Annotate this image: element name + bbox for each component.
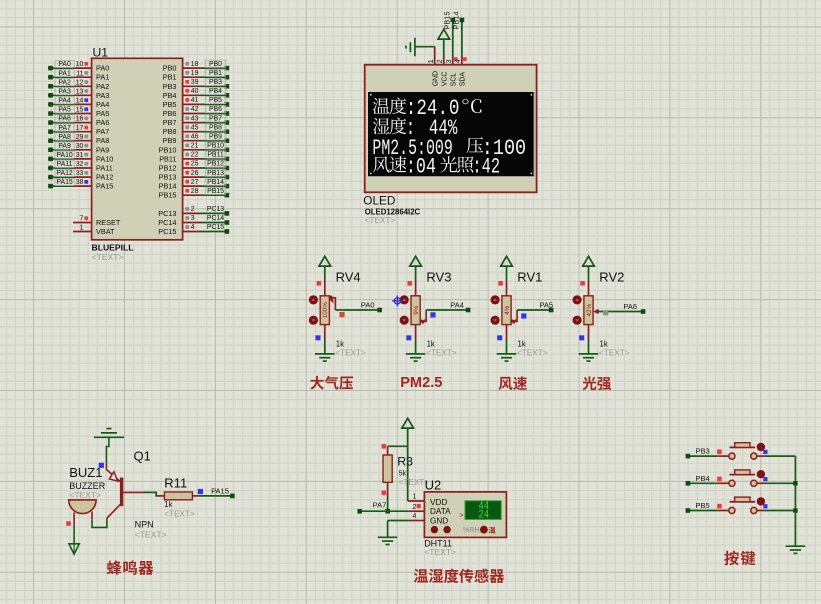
RV2 value 1k xyxy=(599,340,630,358)
U1 left pin 30 PA9 with wire and net label xyxy=(48,142,109,154)
svg-text:PB4: PB4 xyxy=(696,474,710,483)
button actuator circle for PB5 xyxy=(757,497,765,505)
svg-text:PB1: PB1 xyxy=(209,70,222,77)
svg-text:PB3: PB3 xyxy=(163,82,177,91)
svg-text:41: 41 xyxy=(191,97,199,104)
U1 right pin 41 PB5 with wire and net label xyxy=(163,97,229,109)
R3 labels xyxy=(397,455,429,488)
svg-text:<TEXT>: <TEXT> xyxy=(69,490,101,500)
push button for PB5 xyxy=(729,497,757,513)
RV2 state square on wiper wire xyxy=(603,310,608,315)
RV2 state square bottom xyxy=(579,335,584,340)
svg-text:PA5: PA5 xyxy=(58,107,71,114)
push button for PB4 xyxy=(729,470,757,487)
svg-text:PA15: PA15 xyxy=(211,486,229,495)
U1 right pin 39 PB3 with wire and net label xyxy=(163,78,229,90)
power arrow for DHT11 xyxy=(402,418,414,446)
svg-text:PB9: PB9 xyxy=(209,133,222,140)
net label PA4 xyxy=(450,300,464,309)
svg-text:RV1: RV1 xyxy=(517,270,542,285)
svg-text:31: 31 xyxy=(76,152,84,159)
wire R3 to DATA line xyxy=(387,497,389,512)
MCU U1 BLUEPILL chip body xyxy=(92,58,183,240)
U1 right pin 26 PB13 with wire and net label xyxy=(159,169,230,181)
svg-text:PB13: PB13 xyxy=(207,170,224,177)
svg-text:VDD: VDD xyxy=(430,498,447,507)
svg-text:PA0: PA0 xyxy=(96,64,109,73)
U1 pin 7 RESET xyxy=(73,215,121,227)
red label 大气压 xyxy=(310,376,353,390)
svg-text:PC13: PC13 xyxy=(158,209,176,218)
resistor R11 xyxy=(164,492,192,500)
svg-text:39: 39 xyxy=(191,79,199,86)
svg-text:PA6: PA6 xyxy=(58,116,71,123)
U1 right pin 40 PB4 with wire and net label xyxy=(163,87,229,99)
svg-text:NPN: NPN xyxy=(135,519,154,529)
svg-text:30: 30 xyxy=(76,143,84,150)
svg-text:10: 10 xyxy=(76,61,84,68)
OLED pin names GND VCC SCL SDA rotated xyxy=(432,71,466,86)
U1 right pin 27 PB14 with wire and net label xyxy=(159,178,230,190)
U2 pin 2 DATA stub xyxy=(409,504,451,516)
inverted ground symbol above Q1 xyxy=(94,429,124,438)
svg-text:40: 40 xyxy=(191,88,199,95)
transistor Q1 NPN xyxy=(106,464,143,519)
RV1 adjust buttons xyxy=(491,295,500,325)
svg-text:32: 32 xyxy=(76,161,84,168)
svg-text:PA7: PA7 xyxy=(96,127,109,136)
NPN value label xyxy=(135,519,167,539)
RV2 reference label xyxy=(599,270,624,285)
svg-text:PA4: PA4 xyxy=(96,100,109,109)
svg-text:PB3: PB3 xyxy=(209,79,222,86)
svg-text:PB11: PB11 xyxy=(207,152,224,159)
potentiometer RV1 body xyxy=(502,281,511,339)
buzzer BUZ1 xyxy=(69,500,96,525)
svg-text:PB15: PB15 xyxy=(442,11,451,29)
OLED pin 1 GND stub xyxy=(434,47,436,65)
wire power to U2 VDD xyxy=(408,446,425,501)
svg-text::42: :42 xyxy=(472,154,500,179)
svg-text:PC14: PC14 xyxy=(158,218,176,227)
RV2 wiper xyxy=(593,309,600,314)
RV3 state square bottom xyxy=(406,335,411,340)
RV4 state square bottom xyxy=(316,335,321,340)
svg-text:PA12: PA12 xyxy=(56,170,73,177)
BLUEPILL value label xyxy=(92,242,134,261)
U2 adjust buttons and indicator xyxy=(431,525,496,534)
button actuator circle for PB4 xyxy=(757,470,765,478)
svg-text:PB15: PB15 xyxy=(207,188,224,195)
svg-text:7: 7 xyxy=(80,215,84,222)
U1 right pin 21 PB10 with wire and net label xyxy=(159,142,230,154)
svg-text:100%: 100% xyxy=(322,302,329,319)
svg-text:<TEXT>: <TEXT> xyxy=(92,252,124,262)
svg-text:12: 12 xyxy=(76,79,84,86)
svg-text:PC15: PC15 xyxy=(207,224,224,231)
OLED screen text line4 wind and light xyxy=(373,154,500,179)
ground symbol for RV4 xyxy=(315,354,335,361)
svg-text:PA5: PA5 xyxy=(96,109,109,118)
svg-text:1k: 1k xyxy=(336,340,344,349)
wire and net label PB5 xyxy=(686,501,729,513)
U1 right pin 19 PB1 with wire and net label xyxy=(163,69,229,81)
wire RV4 wiper to net label PA0 xyxy=(335,308,382,313)
RV3 state square top xyxy=(407,281,412,286)
svg-text:13: 13 xyxy=(76,88,84,95)
wire Q1 emitter to buzzer xyxy=(92,512,107,528)
RV4 wiper xyxy=(329,296,336,311)
svg-text:PA1: PA1 xyxy=(58,70,71,77)
U1 right pin 46 PB9 with wire and net label xyxy=(163,133,229,145)
net label PA7 xyxy=(373,500,387,509)
svg-text:<TEXT>: <TEXT> xyxy=(599,348,630,357)
state square for PB3 xyxy=(763,450,767,454)
svg-text:3: 3 xyxy=(191,215,195,222)
svg-text:21: 21 xyxy=(191,143,199,150)
svg-text:PA3: PA3 xyxy=(58,88,71,95)
svg-text:PB5: PB5 xyxy=(209,97,222,104)
state square at R3 top xyxy=(382,444,387,449)
potentiometer RV2 body xyxy=(584,281,593,339)
svg-text:PA8: PA8 xyxy=(58,134,71,141)
U1 right pin 43 PB7 with wire and net label xyxy=(163,115,229,127)
svg-text:PB7: PB7 xyxy=(163,118,177,127)
svg-text:1k: 1k xyxy=(427,340,435,349)
svg-text:1: 1 xyxy=(412,494,416,501)
wire R11 to net label PA15 xyxy=(192,494,234,499)
state squares at OLED pins 3 and 4 xyxy=(454,57,467,61)
red label 风速 xyxy=(499,376,527,390)
power arrow for OLED VCC xyxy=(438,29,450,39)
svg-text:VBAT: VBAT xyxy=(96,227,115,236)
svg-text:PB15: PB15 xyxy=(159,191,177,200)
wire RV3 to ground xyxy=(415,339,417,354)
svg-text:<TEXT>: <TEXT> xyxy=(365,216,396,225)
svg-text:PB6: PB6 xyxy=(163,109,177,118)
svg-text:PC14: PC14 xyxy=(207,215,224,222)
svg-text:1: 1 xyxy=(80,224,84,231)
U1 left pin 11 PA1 with wire and net label xyxy=(48,70,109,82)
RV3 adjust buttons xyxy=(400,295,409,325)
svg-text:PA0: PA0 xyxy=(361,300,375,309)
svg-text:PB8: PB8 xyxy=(163,127,177,136)
svg-text::04: :04 xyxy=(406,155,436,180)
wire RV2 to ground xyxy=(588,339,590,354)
svg-text:PB12: PB12 xyxy=(159,164,177,173)
svg-text:45: 45 xyxy=(191,124,199,131)
svg-text:43: 43 xyxy=(191,115,199,122)
wire ground to Q1 collector xyxy=(106,437,109,463)
svg-text:PA2: PA2 xyxy=(58,79,71,86)
svg-text:PB10: PB10 xyxy=(207,143,224,150)
svg-text:PA10: PA10 xyxy=(56,152,73,159)
svg-text:PM2.5: PM2.5 xyxy=(400,375,442,391)
svg-text:PA8: PA8 xyxy=(96,136,109,145)
red label for buttons xyxy=(724,551,755,566)
net label PA15 xyxy=(211,486,229,495)
U1 left pin 15 PA5 with wire and net label xyxy=(48,106,109,118)
U1 left pin 10 PA0 with wire and net label xyxy=(48,60,109,72)
U1 left pin 31 PA10 with wire and net label xyxy=(48,151,113,163)
R11 value 1k xyxy=(164,500,195,519)
svg-text:18: 18 xyxy=(191,61,199,68)
red label 光强 xyxy=(583,376,612,390)
wire and net label PB4 xyxy=(686,474,729,486)
RV1 state square on wiper wire xyxy=(521,313,526,318)
svg-text:PB7: PB7 xyxy=(209,115,222,122)
U1 left pin 38 PA15 with wire and net label xyxy=(48,178,113,190)
svg-text:PA9: PA9 xyxy=(96,145,109,154)
svg-text:RV4: RV4 xyxy=(336,270,361,285)
RV1 value 1k xyxy=(517,340,548,358)
svg-text:<TEXT>: <TEXT> xyxy=(335,348,366,357)
junction on DATA line xyxy=(385,509,390,514)
svg-text:PB1: PB1 xyxy=(163,73,177,82)
R11 reference label xyxy=(164,476,187,491)
RV4 state square on wiper wire xyxy=(339,312,344,317)
svg-text:14: 14 xyxy=(76,98,84,105)
OLED pin numbers rotated xyxy=(428,59,462,63)
wire power to R3 xyxy=(388,445,408,447)
svg-text:RESET: RESET xyxy=(96,218,121,227)
wire GND to ground symbol xyxy=(387,521,389,538)
svg-text:4: 4 xyxy=(191,224,195,231)
svg-text:GND: GND xyxy=(432,71,439,86)
red label PM2.5 xyxy=(400,375,442,391)
svg-text:22: 22 xyxy=(191,152,199,159)
svg-text:PB0: PB0 xyxy=(163,64,177,73)
svg-text:1: 1 xyxy=(428,59,435,63)
svg-text:15: 15 xyxy=(76,107,84,114)
svg-text:PB9: PB9 xyxy=(163,136,177,145)
power arrow for RV3 xyxy=(410,256,422,281)
svg-text:11: 11 xyxy=(76,70,83,77)
svg-text:PB3: PB3 xyxy=(696,447,710,456)
potentiometer RV3 body xyxy=(411,281,420,339)
svg-text:1k: 1k xyxy=(518,340,526,349)
svg-text:U2: U2 xyxy=(425,477,442,492)
wire PB4 button to bus xyxy=(757,482,796,484)
OLED black screen xyxy=(368,92,534,177)
svg-text:25: 25 xyxy=(191,161,199,168)
svg-text:4: 4 xyxy=(455,59,462,63)
svg-text:PC13: PC13 xyxy=(207,206,224,213)
svg-text:PA15: PA15 xyxy=(96,182,113,191)
RV2 state square top xyxy=(580,281,585,286)
U1 left pin 32 PA11 with wire and net label xyxy=(48,160,113,172)
OLED screen text line3 PM2.5 and pressure xyxy=(372,135,526,161)
svg-text:42%: 42% xyxy=(586,304,593,317)
svg-text:2: 2 xyxy=(412,504,416,511)
svg-text:PA7: PA7 xyxy=(58,125,71,132)
wire PB3 button to bus xyxy=(757,455,796,457)
svg-text:PA4: PA4 xyxy=(450,300,464,309)
svg-text:<TEXT>: <TEXT> xyxy=(517,348,548,357)
svg-text:PA11: PA11 xyxy=(57,161,73,168)
RV1 state square bottom xyxy=(497,335,502,340)
svg-text:PA15: PA15 xyxy=(56,179,73,186)
svg-text:PA0: PA0 xyxy=(58,61,71,68)
RV3 wiper xyxy=(419,310,426,324)
U1 right pin 22 PB11 with wire and net label xyxy=(159,151,229,163)
U1 left pin 14 PA4 with wire and net label xyxy=(48,97,109,109)
svg-text:PB8: PB8 xyxy=(209,124,222,131)
svg-text:PB14: PB14 xyxy=(451,11,460,29)
svg-text:PB13: PB13 xyxy=(159,173,177,182)
svg-text:PB11: PB11 xyxy=(159,154,176,163)
svg-text:4%: 4% xyxy=(504,305,511,315)
svg-text:2: 2 xyxy=(437,59,444,63)
svg-text:PA2: PA2 xyxy=(96,82,109,91)
power arrow for RV1 xyxy=(501,256,513,281)
svg-text:PB5: PB5 xyxy=(696,501,710,510)
svg-text:PA9: PA9 xyxy=(58,143,71,150)
net label PA0 xyxy=(361,300,375,309)
OLED reference labels xyxy=(363,194,420,226)
output arrow down xyxy=(69,544,79,554)
svg-text:R3: R3 xyxy=(397,455,413,469)
RV3 reference label xyxy=(426,270,451,285)
svg-text:<TEXT>: <TEXT> xyxy=(135,530,167,540)
svg-text:<TEXT>: <TEXT> xyxy=(426,348,457,357)
svg-text:PB14: PB14 xyxy=(159,182,177,191)
svg-text:26: 26 xyxy=(191,170,199,177)
U1 right pin 4 PC15 with wire and net label xyxy=(158,224,229,236)
U1 left pin 13 PA3 with wire and net label xyxy=(48,88,109,100)
power arrow for RV2 xyxy=(583,256,595,281)
U1 pin 1 VBAT xyxy=(73,224,115,236)
wire RV2 wiper to net label PA6 xyxy=(600,309,646,314)
svg-text:PB6: PB6 xyxy=(209,106,222,113)
wire PB5 button to bus xyxy=(757,510,796,512)
U2 pin 1 VDD xyxy=(412,494,447,507)
svg-text:17: 17 xyxy=(76,125,84,132)
RV3 state square on wiper wire xyxy=(430,312,435,317)
wire RV1 to ground xyxy=(506,339,508,354)
wire RV3 wiper to net label PA4 xyxy=(426,308,470,313)
RV4 reference label xyxy=(336,270,361,285)
svg-text:1k: 1k xyxy=(600,340,608,349)
net label PA5 xyxy=(539,300,553,309)
wire and net label PB3 xyxy=(686,447,729,459)
RV1 wiper xyxy=(510,310,517,324)
ground symbol for RV2 xyxy=(579,354,599,361)
svg-text:SCL: SCL xyxy=(451,73,458,87)
svg-text:OLED: OLED xyxy=(363,194,395,208)
svg-text:PA6: PA6 xyxy=(96,118,109,127)
RV1 state square top xyxy=(498,281,503,286)
state square at R3 bottom xyxy=(382,491,387,496)
svg-text:PA10: PA10 xyxy=(96,154,113,163)
state square on PA15 wire xyxy=(198,489,203,494)
svg-text:RV3: RV3 xyxy=(426,270,451,285)
net label PB14 rotated xyxy=(451,11,460,29)
OLED pin 4 SDA wire to PB14 xyxy=(460,18,465,65)
RV4 state square top xyxy=(317,281,322,286)
U1 right pin 3 PC14 with wire and net label xyxy=(158,215,229,227)
svg-text:PC15: PC15 xyxy=(158,227,176,236)
U1 right pin 25 PB12 with wire and net label xyxy=(159,160,230,172)
wire DATA to net label PA7 xyxy=(357,509,408,514)
state square on buzzer wire xyxy=(66,521,71,526)
svg-text:PA7: PA7 xyxy=(373,500,387,509)
U2 reference label xyxy=(425,477,442,492)
svg-text:BUZ1: BUZ1 xyxy=(69,465,102,480)
OLED module body xyxy=(365,65,537,193)
bus junctions xyxy=(793,481,797,513)
wire buzzer to output arrow xyxy=(73,525,75,544)
svg-text:PB0: PB0 xyxy=(209,61,222,68)
OLED pin 2 VCC stub xyxy=(443,39,445,65)
svg-text:PA6: PA6 xyxy=(623,302,637,311)
ground symbol for DHT11 xyxy=(378,537,398,544)
ground symbol for RV3 xyxy=(406,354,426,361)
svg-text:PB14: PB14 xyxy=(207,179,224,186)
power arrow for RV4 xyxy=(319,256,331,281)
ground symbol for RV1 xyxy=(497,354,517,361)
svg-text:RV2: RV2 xyxy=(599,270,624,285)
state square for PB4 xyxy=(763,477,767,481)
svg-text:PA5: PA5 xyxy=(539,300,553,309)
svg-text:2: 2 xyxy=(191,206,195,213)
svg-text:24: 24 xyxy=(479,509,490,521)
ground symbol for buttons xyxy=(786,546,806,553)
state square on collector wire xyxy=(99,463,104,468)
U2 DHT11 body xyxy=(424,492,506,538)
resistor R3 xyxy=(383,446,392,496)
svg-text:38: 38 xyxy=(76,179,84,186)
svg-text:27: 27 xyxy=(191,179,199,186)
svg-text:PB5: PB5 xyxy=(163,100,177,109)
svg-text:33: 33 xyxy=(76,170,84,177)
svg-text:9%: 9% xyxy=(413,305,420,315)
svg-text:PB4: PB4 xyxy=(209,88,222,95)
state square for PB5 xyxy=(763,504,767,508)
svg-text:%RH: %RH xyxy=(463,525,480,534)
svg-text:42: 42 xyxy=(191,106,199,113)
mouse crosshair origin marker xyxy=(392,296,403,307)
net label PA6 xyxy=(623,302,637,311)
svg-text:R11: R11 xyxy=(164,476,187,491)
ground symbol rotated for OLED xyxy=(406,38,415,56)
svg-text:1k: 1k xyxy=(164,500,172,509)
red label for buzzer xyxy=(107,560,154,574)
RV3 value 1k xyxy=(426,340,457,358)
potentiometer RV4 body xyxy=(320,281,329,339)
DHT11 green LCD readout xyxy=(459,500,501,520)
svg-text:U1: U1 xyxy=(93,46,109,60)
svg-text:<TEXT>: <TEXT> xyxy=(164,510,195,519)
svg-text:>: > xyxy=(459,510,464,519)
svg-text:PB12: PB12 xyxy=(207,161,224,168)
wire RV1 wiper to net label PA5 xyxy=(517,308,553,313)
U1 right pin 45 PB8 with wire and net label xyxy=(163,124,229,136)
svg-text:PA11: PA11 xyxy=(96,164,113,173)
svg-text:PB4: PB4 xyxy=(163,91,177,100)
svg-text:PB10: PB10 xyxy=(159,145,177,154)
svg-text:Q1: Q1 xyxy=(134,449,151,464)
OLED pin 3 SCL wire to PB15 xyxy=(451,18,456,65)
U1 right pin 18 PB0 with wire and net label xyxy=(163,60,229,72)
svg-text:SDA: SDA xyxy=(460,72,467,87)
svg-text:DATA: DATA xyxy=(430,507,451,516)
OLED screen text line2 humidity xyxy=(373,116,458,141)
U1 left pin 33 PA12 with wire and net label xyxy=(48,169,113,181)
svg-text:VCC: VCC xyxy=(442,72,449,87)
svg-text:3: 3 xyxy=(446,59,453,63)
push button for PB3 xyxy=(729,443,757,460)
